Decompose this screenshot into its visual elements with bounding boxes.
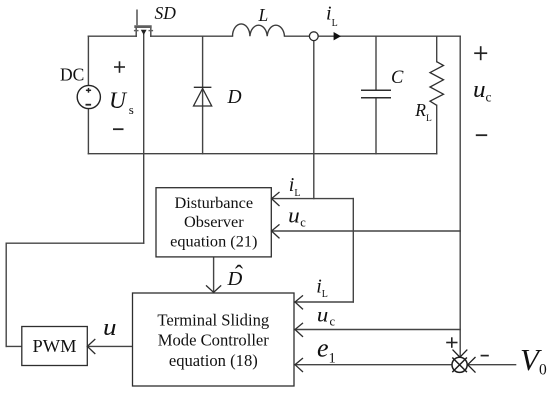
capacitor C	[361, 90, 391, 98]
svg-text:c: c	[300, 216, 306, 230]
wire uc horizontal into controller	[295, 329, 460, 331]
svg-text:SD: SD	[155, 3, 177, 23]
wire capacitor branch lower	[375, 98, 377, 154]
wire V0 input from right	[468, 364, 516, 366]
svg-text:u: u	[103, 315, 117, 341]
block Disturbance Observer	[156, 188, 271, 257]
wire left rail lower (source to bottom rail)	[87, 108, 89, 154]
label - (output polarity)	[476, 134, 487, 136]
wire right rail uc net	[459, 36, 461, 357]
svg-text:Terminal Sliding: Terminal Sliding	[157, 311, 269, 330]
svg-text:ˆ: ˆ	[235, 262, 243, 288]
summing junction (circle with X)	[452, 357, 467, 372]
resistor RL	[430, 62, 444, 106]
block Terminal Sliding Mode Controller	[133, 293, 295, 386]
wire gate feedback horizontal at y=243	[6, 242, 144, 244]
arrowhead e1 into controller	[295, 358, 303, 372]
arrowhead iL into controller	[295, 295, 303, 309]
label - (source polarity)	[113, 128, 124, 130]
arrow iL direction	[334, 32, 341, 40]
wire iL horizontal into observer	[272, 198, 354, 200]
source DC (voltage source circle)	[77, 85, 100, 108]
svg-text:L: L	[258, 5, 269, 25]
inductor L	[233, 24, 285, 36]
wire iL horizontal into controller	[295, 301, 353, 303]
svg-text:c: c	[486, 89, 492, 104]
wire bottom rail	[88, 153, 436, 155]
label + (source polarity)	[114, 61, 125, 73]
wire MOSFET left contact riser	[135, 31, 137, 37]
arrowhead uc into controller	[295, 323, 303, 337]
node iL (current sense circle)	[309, 32, 318, 41]
svg-text:Disturbance: Disturbance	[174, 193, 253, 212]
wire resistor branch lower	[436, 105, 438, 153]
wire diode branch	[202, 36, 204, 154]
svg-text:PWM: PWM	[33, 336, 77, 356]
wire u from controller to PWM	[87, 345, 133, 347]
arrowhead Dhat into controller	[206, 285, 221, 292]
wire capacitor branch upper	[375, 36, 377, 90]
svg-text:c: c	[330, 315, 336, 329]
wire uc horizontal into observer	[272, 230, 461, 232]
wire left rail upper (source to top rail)	[87, 36, 89, 85]
svg-text:equation (21): equation (21)	[170, 232, 257, 251]
diode D	[194, 87, 212, 106]
svg-text:u: u	[288, 202, 300, 227]
svg-text:u: u	[317, 303, 328, 327]
wire gate feedback into PWM	[6, 345, 22, 347]
svg-text:u: u	[473, 77, 486, 103]
arrowhead uc into summing junction (from top)	[453, 350, 468, 358]
wire top rail from MOSFET to inductor	[151, 35, 233, 37]
transistor SD (switch)	[134, 10, 153, 36]
wire top rail from inductor to node	[285, 35, 310, 37]
wire e1 from summing junction to controller	[295, 364, 452, 366]
wire iL sense vertical from node	[313, 41, 315, 199]
wire MOSFET right contact riser	[150, 31, 152, 37]
svg-text:equation (18): equation (18)	[169, 351, 258, 370]
wire resistor branch upper	[436, 36, 438, 62]
label + (junction sign)	[446, 337, 457, 348]
wire iL drop vertical to controller level	[352, 199, 354, 302]
wire top rail from node to top-right corner	[318, 35, 460, 37]
svg-text:Observer: Observer	[184, 212, 244, 231]
wire Dhat from observer to controller	[213, 258, 215, 293]
arrowhead u into PWM	[87, 339, 95, 354]
block PWM	[22, 327, 88, 366]
svg-text:Mode Controller: Mode Controller	[158, 331, 270, 350]
arrowhead iL into observer	[272, 192, 280, 206]
wire gate drive vertical from MOSFET	[143, 31, 145, 243]
arrowhead uc into observer	[272, 224, 280, 238]
arrowhead V0 into summing junction (from right)	[468, 357, 476, 373]
svg-text:C: C	[391, 68, 404, 88]
wire gate feedback left vertical	[5, 243, 7, 346]
svg-text:D: D	[227, 87, 242, 108]
wire top rail left segment	[88, 35, 136, 37]
label + (output polarity)	[474, 46, 487, 60]
label - (junction sign)	[481, 355, 489, 357]
svg-text:DC: DC	[60, 65, 84, 85]
